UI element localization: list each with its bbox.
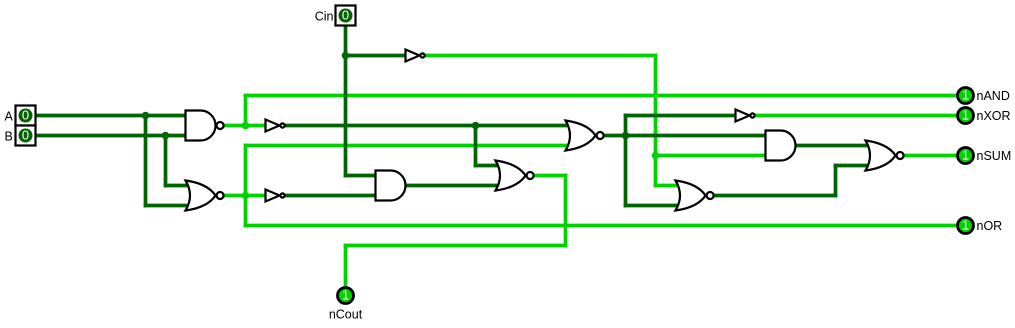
svg-text:nSUM: nSUM	[977, 149, 1012, 163]
svg-text:0: 0	[22, 108, 29, 123]
svg-text:1: 1	[342, 288, 349, 303]
svg-text:B: B	[5, 130, 13, 144]
svg-text:nXOR: nXOR	[977, 109, 1011, 123]
svg-text:1: 1	[962, 218, 969, 233]
svg-text:1: 1	[962, 88, 969, 103]
svg-text:A: A	[5, 110, 14, 124]
svg-text:1: 1	[962, 108, 969, 123]
svg-text:nAND: nAND	[977, 89, 1010, 103]
svg-text:nOR: nOR	[977, 219, 1003, 233]
svg-text:0: 0	[342, 8, 349, 23]
svg-text:0: 0	[22, 128, 29, 143]
svg-text:Cin: Cin	[315, 10, 334, 24]
svg-text:1: 1	[962, 148, 969, 163]
svg-text:nCout: nCout	[329, 308, 363, 322]
